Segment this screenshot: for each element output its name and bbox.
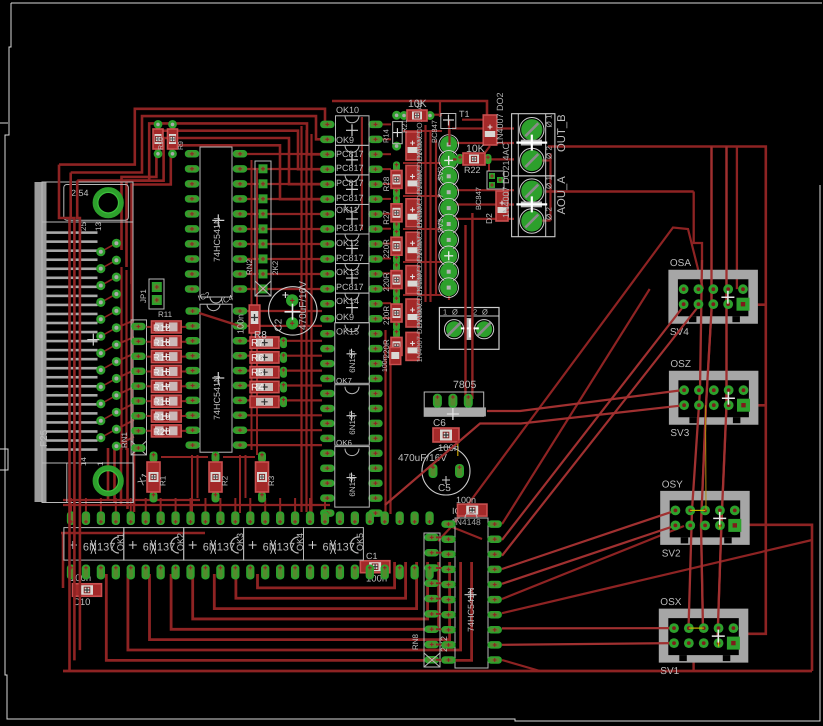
svg-text:220R: 220R — [382, 306, 391, 325]
svg-text:OK10: OK10 — [336, 105, 359, 115]
wire left long verticals over connector — [59, 165, 80, 671]
resistor network RN8 — [411, 533, 449, 667]
optocoupler row pads bottom — [67, 565, 434, 580]
op-amp/IC U IC1 74HC541N — [185, 293, 247, 452]
resistor R27 col — [382, 195, 402, 231]
svg-text:OK12: OK12 — [336, 238, 359, 248]
svg-text:R4: R4 — [251, 383, 264, 394]
svg-text:74HC541N: 74HC541N — [212, 217, 222, 262]
wire SV chain verticals — [694, 147, 812, 672]
resistor 220R col — [382, 295, 402, 331]
mount hole bottom — [95, 468, 121, 494]
wire over-frame verticals — [385, 147, 727, 645]
resistor network RN1 — [120, 320, 147, 455]
connector SV1 pads — [669, 623, 740, 649]
svg-text:470uF/16V: 470uF/16V — [298, 281, 309, 330]
svg-text:OUT_B: OUT_B — [556, 114, 568, 152]
optocoupler OK2 6N137 — [124, 528, 186, 561]
resistor R21 10K — [400, 98, 435, 133]
svg-text:PC817: PC817 — [336, 178, 364, 188]
svg-text:1: 1 — [96, 461, 105, 466]
resistor R1 — [147, 452, 168, 503]
svg-text:R13: R13 — [153, 338, 170, 349]
capacitor C1 100n — [360, 551, 390, 585]
svg-text:1N4007 DO214AC: 1N4007 DO214AC — [501, 142, 511, 218]
svg-text:10K: 10K — [466, 143, 485, 155]
optocoupler OK5 6N137 — [304, 528, 366, 561]
resistor R13 — [147, 336, 187, 349]
resistor R6 mid column — [250, 352, 287, 364]
optocoupler OK box 5 — [336, 264, 370, 294]
capacitor C6 100n — [433, 418, 459, 456]
resistor R20 — [147, 425, 187, 438]
wire RN8-IC3 stubs — [436, 537, 448, 659]
resistor R10 — [153, 120, 165, 158]
svg-text:PC817: PC817 — [336, 163, 364, 173]
svg-text:D2: D2 — [484, 213, 494, 224]
label R11 — [158, 310, 173, 319]
connector SV2 pads — [671, 506, 742, 532]
optocoupler OK box 3 — [336, 204, 370, 234]
svg-text:R21: R21 — [400, 119, 409, 133]
optocoupler row pads top — [67, 511, 434, 525]
resistor R2 — [209, 452, 230, 503]
connector SV4 pads — [679, 284, 750, 310]
relay K1 pads — [436, 135, 459, 298]
capacitor C2 470uF — [269, 281, 317, 335]
diode D7 — [406, 166, 424, 229]
optocoupler OK6 6N137 — [335, 439, 370, 508]
optocoupler labels — [336, 105, 364, 337]
svg-text:BC847: BC847 — [474, 187, 483, 210]
svg-text:RN8: RN8 — [411, 633, 420, 650]
terminal X2 — [439, 308, 499, 350]
svg-text:220R: 220R — [382, 239, 391, 258]
svg-text:SV3: SV3 — [670, 428, 689, 439]
wire left verticals to bottom bus — [108, 448, 134, 512]
svg-text:OSZ: OSZ — [670, 359, 691, 370]
connector F25/X1 DB25 — [35, 182, 134, 503]
capacitor C3 100n — [451, 495, 487, 527]
svg-text:R9: R9 — [178, 141, 185, 150]
svg-text:OSY: OSY — [662, 479, 683, 490]
diode D9 — [406, 232, 424, 295]
svg-text:OSA: OSA — [670, 258, 691, 269]
connector SV3 pads — [679, 385, 750, 411]
svg-text:R8: R8 — [254, 330, 267, 341]
optocoupler OK box 2 — [336, 175, 370, 205]
connector F25 pads — [96, 239, 121, 451]
svg-text:10K: 10K — [408, 98, 427, 110]
svg-text:R12: R12 — [153, 323, 170, 334]
svg-text:1N4007 DO2: 1N4007 DO2 — [495, 92, 505, 145]
resistor R4 mid column — [250, 381, 287, 393]
svg-text:R10: R10 — [158, 137, 165, 150]
svg-text:Ø 1: Ø 1 — [545, 114, 554, 127]
optocoupler OK7 6N137 — [335, 377, 370, 446]
diode D1 — [483, 92, 505, 145]
connector labels — [39, 188, 152, 488]
optocoupler OK1 6N137 — [64, 528, 126, 561]
wire left column verticals — [122, 267, 132, 450]
terminal OUT_B — [512, 114, 568, 176]
svg-text:Ø: Ø — [452, 308, 458, 317]
wire X2 verticals — [466, 213, 473, 399]
svg-text:7805: 7805 — [453, 379, 477, 391]
svg-text:R2: R2 — [221, 475, 230, 486]
svg-text:R20: R20 — [153, 427, 170, 438]
svg-text:R5: R5 — [251, 368, 264, 379]
op-amp/IC U IC2 74HC541N — [185, 147, 247, 303]
svg-text:6N137: 6N137 — [348, 472, 357, 496]
svg-text:C1: C1 — [366, 551, 378, 561]
optocoupler OK box 0 — [336, 116, 370, 146]
wire diagonals to SV connectors — [438, 228, 812, 672]
svg-text:AOU_A: AOU_A — [556, 176, 568, 215]
wire bottom-left nested bus — [106, 562, 471, 660]
svg-text:OK7: OK7 — [336, 377, 353, 386]
wire yellow net SV3-SV2 — [705, 405, 708, 510]
wire bottom long traces — [63, 533, 812, 671]
svg-text:Ø 2: Ø 2 — [545, 207, 554, 220]
svg-text:SV3: SV3 — [436, 219, 445, 233]
svg-text:PC817: PC817 — [336, 193, 364, 203]
svg-text:R28: R28 — [382, 176, 391, 191]
svg-text:R15: R15 — [153, 353, 170, 364]
svg-text:R19: R19 — [153, 412, 170, 423]
svg-text:OK5: OK5 — [355, 533, 365, 551]
resistor R18 — [147, 395, 187, 408]
wire mid horizontal rows above OK row — [61, 455, 330, 533]
diode D11 — [406, 299, 424, 362]
svg-text:OSX: OSX — [660, 597, 681, 608]
svg-text:F25: F25 — [39, 429, 50, 447]
diode D6 — [406, 132, 424, 195]
svg-text:RN1: RN1 — [120, 431, 129, 448]
svg-text:Ø 1: Ø 1 — [545, 176, 554, 189]
svg-text:Ø 2: Ø 2 — [545, 146, 554, 159]
svg-text:100n: 100n — [456, 495, 476, 505]
svg-text:BC847: BC847 — [430, 120, 439, 143]
svg-text:220R: 220R — [382, 272, 391, 291]
svg-text:7: 7 — [436, 194, 445, 198]
svg-text:2K2: 2K2 — [271, 260, 280, 275]
svg-text:6N137: 6N137 — [348, 411, 357, 435]
op-amp/IC U IC3 74HC541N — [441, 512, 502, 668]
resistor R15 — [147, 351, 187, 364]
svg-text:C2: C2 — [274, 318, 285, 331]
svg-text:1N4007 DO214AC: 1N4007 DO214AC — [415, 299, 424, 362]
svg-text:R6: R6 — [251, 353, 264, 364]
svg-text:OK15: OK15 — [336, 327, 359, 337]
svg-text:R22: R22 — [464, 165, 481, 175]
resistor R5 mid column — [250, 367, 287, 379]
svg-text:OK14: OK14 — [336, 296, 359, 306]
resistor R9 — [168, 120, 186, 158]
diode D5 — [406, 99, 424, 162]
connector SV4 header body — [668, 258, 758, 338]
transistor T1 — [441, 109, 470, 129]
svg-text:JP1: JP1 — [139, 289, 148, 303]
svg-text:OK9: OK9 — [336, 135, 354, 145]
resistor R22 — [457, 143, 492, 175]
svg-text:2: 2 — [473, 308, 477, 317]
wire IC3 top diagonal — [452, 527, 482, 539]
svg-text:SV2: SV2 — [436, 167, 445, 181]
resistor R mid column — [250, 396, 287, 407]
optocoupler OK4 6N137 — [244, 528, 306, 561]
mount hole top — [95, 190, 121, 216]
resistor 220R col — [382, 262, 402, 298]
resistor R3 — [256, 452, 277, 503]
connector SV3 header body — [669, 359, 759, 439]
optocoupler OK box 6 — [336, 293, 370, 323]
svg-text:PC817: PC817 — [336, 149, 364, 159]
wire top horizontal y101 — [332, 101, 487, 116]
capacitor C10 100n — [70, 573, 102, 608]
capacitor 100n column top — [236, 305, 268, 341]
optocoupler OK box 1 — [336, 145, 370, 175]
connector SV1 header body — [659, 597, 749, 677]
svg-text:SV2: SV2 — [662, 548, 681, 559]
diode D10 — [406, 266, 424, 329]
resistor R14 col — [382, 111, 403, 151]
resistor R17 — [147, 380, 187, 393]
resistor R7 mid column — [250, 337, 287, 349]
capacitor C5 470uF — [398, 447, 470, 495]
resistor R12 — [147, 321, 187, 334]
wire top-right stubs — [425, 100, 490, 171]
resistor R19 — [147, 410, 187, 423]
svg-text:C6: C6 — [433, 418, 446, 429]
svg-text:RN2: RN2 — [245, 258, 254, 275]
wire OUT_B internal net — [542, 153, 551, 220]
svg-text:R18: R18 — [153, 397, 170, 408]
svg-text:T1: T1 — [459, 109, 470, 119]
svg-text:PC817: PC817 — [336, 282, 364, 292]
svg-text:R17: R17 — [153, 382, 170, 393]
wire right-top long traces — [546, 147, 766, 634]
svg-text:OK6: OK6 — [336, 439, 353, 448]
svg-text:PC817: PC817 — [336, 253, 364, 263]
svg-text:R1: R1 — [159, 475, 168, 486]
wire top-left staircase bundle — [59, 109, 325, 284]
svg-text:OK11: OK11 — [336, 205, 358, 215]
wire IC1 interior diagonal — [199, 313, 240, 326]
resistor 220R col — [382, 228, 402, 264]
resistor R16 — [147, 365, 187, 378]
wire center long verticals — [252, 117, 391, 514]
svg-text:R27: R27 — [382, 210, 391, 225]
svg-text:100n: 100n — [382, 356, 389, 372]
wire diode-relay column verticals — [403, 125, 442, 302]
optocoupler OK15 6N137 — [335, 323, 370, 384]
svg-text:OK13: OK13 — [336, 267, 359, 277]
terminal AOU_A — [512, 176, 568, 237]
regulator 7805 — [424, 379, 486, 420]
resistor network RN2 — [245, 161, 280, 296]
jumper JP1 — [139, 279, 164, 309]
svg-text:OK9: OK9 — [336, 312, 354, 322]
wire DB25 pad column jumpers — [101, 243, 134, 446]
svg-text:6N137: 6N137 — [348, 349, 357, 373]
svg-text:1: 1 — [443, 308, 447, 317]
svg-text:100n: 100n — [236, 314, 246, 334]
capacitor C9 100n — [382, 348, 401, 373]
connector SV2 header body — [660, 479, 750, 559]
svg-text:R3: R3 — [267, 475, 276, 486]
svg-text:C5: C5 — [438, 483, 451, 494]
wire relay column links — [449, 120, 514, 300]
transistor Q BC847 — [474, 171, 504, 210]
svg-text:74HC541N: 74HC541N — [212, 375, 222, 420]
svg-text:SV1: SV1 — [660, 666, 679, 677]
optocoupler OK box 4 — [336, 234, 370, 264]
svg-text:R16: R16 — [153, 367, 170, 378]
optocoupler OK3 6N137 — [184, 528, 246, 561]
optocoupler stack pads — [320, 121, 383, 517]
resistor R28 col — [382, 161, 402, 197]
wire PC817 right pad links — [380, 124, 391, 318]
transistor Q BC847 top — [430, 120, 439, 143]
svg-text:R11: R11 — [158, 310, 173, 319]
diode D8 — [406, 199, 424, 262]
diode D2 — [484, 142, 511, 224]
svg-text:R14: R14 — [382, 129, 391, 143]
svg-text:13: 13 — [94, 222, 103, 231]
resistor 220R col — [382, 328, 402, 364]
wire IC2 to PC817 row links — [247, 154, 322, 445]
svg-text:Ø: Ø — [482, 308, 488, 317]
svg-text:PC817: PC817 — [336, 223, 364, 233]
svg-text:2,54: 2,54 — [71, 188, 89, 198]
